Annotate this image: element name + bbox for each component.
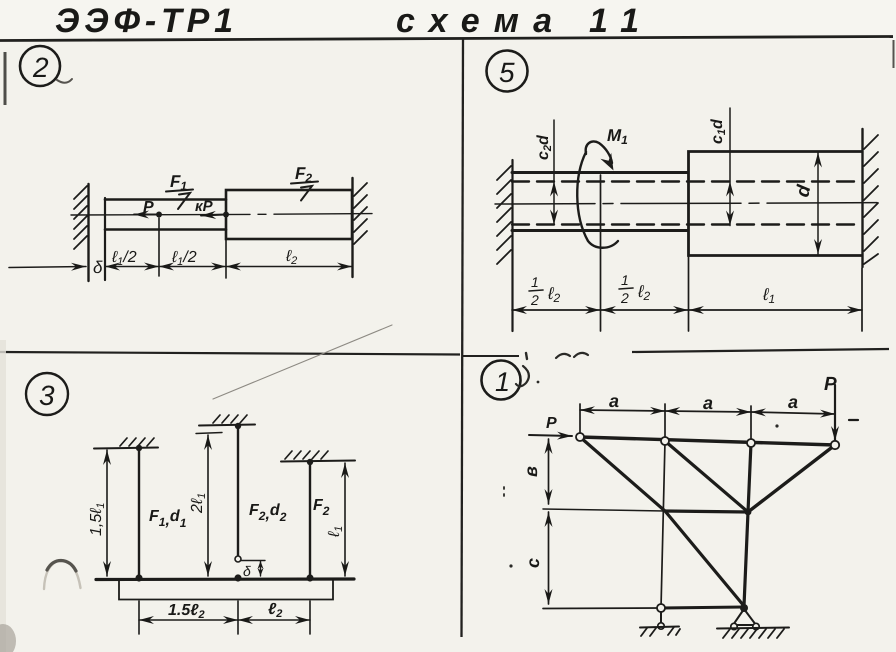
force P arrow bbox=[134, 214, 159, 216]
top chord A-E bbox=[580, 437, 835, 445]
svg-text:5: 5 bbox=[499, 57, 515, 88]
dimension l1 panel3 bbox=[344, 463, 346, 576]
node F dot bbox=[745, 509, 752, 516]
svg-text:2: 2 bbox=[620, 290, 629, 306]
dimension l1/2 second bbox=[159, 266, 226, 268]
right edge mark bbox=[893, 40, 895, 68]
stray arc 2 bbox=[574, 353, 588, 357]
PANEL2 bbox=[9, 46, 372, 281]
node E bbox=[831, 441, 839, 449]
big shaft outline bbox=[689, 152, 863, 256]
hanging bar 2 bbox=[237, 425, 239, 555]
support H hatching bbox=[641, 627, 680, 636]
bar 3 beam dot bbox=[306, 574, 313, 581]
P application dot bbox=[156, 212, 162, 218]
node C bbox=[747, 439, 755, 447]
support H ground line bbox=[640, 627, 679, 628]
vertical member B-H thin bbox=[661, 441, 665, 608]
ceiling support 2 line bbox=[199, 425, 255, 426]
ceiling 1 hatching bbox=[120, 438, 154, 446]
support G pin triangle bbox=[733, 609, 756, 625]
PANEL1 bbox=[482, 353, 859, 638]
PANEL5 bbox=[487, 51, 879, 332]
top dimension extension B bbox=[664, 404, 666, 438]
horizontal divider right bbox=[632, 349, 889, 352]
force P right arrow bbox=[834, 385, 836, 441]
right wall hatching bbox=[354, 183, 367, 244]
vertical divider bbox=[462, 39, 464, 637]
chord D-F bbox=[665, 511, 748, 512]
big bar (right step) bbox=[226, 190, 352, 239]
axis centerline bbox=[71, 214, 372, 215]
panel number 3 circle bbox=[26, 373, 68, 415]
support G ground line bbox=[717, 628, 789, 629]
shaft centerline bbox=[495, 203, 877, 204]
svg-text:c: c bbox=[523, 558, 543, 568]
node G dot bbox=[740, 604, 748, 612]
support G roller left bbox=[731, 623, 737, 629]
ceiling 3 hatching bbox=[285, 451, 328, 459]
svg-text:δ: δ bbox=[93, 258, 103, 277]
svg-text:2: 2 bbox=[32, 52, 49, 83]
stray diagonal scan line bbox=[213, 325, 392, 399]
stray dot top bbox=[775, 424, 778, 427]
title handwriting bbox=[55, 2, 639, 40]
thin bar left edge + extension line bbox=[104, 198, 106, 280]
left scanner strip bbox=[0, 340, 6, 652]
stray pen tail near circle 2 bbox=[57, 79, 72, 83]
extension below step bbox=[688, 256, 690, 331]
left wall line bbox=[87, 184, 89, 281]
force kP arrow bbox=[201, 215, 226, 216]
stray dot bbox=[537, 381, 540, 384]
dimension l1/2 first bbox=[105, 266, 159, 268]
thin shaft outline bbox=[512, 173, 688, 231]
bar 3 top pin dot bbox=[307, 459, 313, 465]
kP application dot bbox=[223, 212, 229, 218]
diagonal E-F bbox=[748, 445, 835, 512]
svg-text:кР: кР bbox=[195, 198, 214, 215]
rigid beam body bbox=[119, 580, 333, 600]
bottom-left corner smudge bbox=[0, 624, 16, 652]
punch hole shadow arc dark bbox=[47, 561, 76, 572]
horizontal divider left bbox=[0, 352, 460, 355]
diagonal B-F bbox=[665, 441, 748, 512]
right wall line bbox=[861, 129, 863, 267]
c1d dimension line bbox=[729, 108, 731, 181]
F2 slash arrow bbox=[301, 186, 312, 201]
c2d arrows bbox=[553, 182, 555, 225]
bottom horizontal line bbox=[543, 607, 661, 610]
PANEL3 bbox=[26, 325, 392, 634]
extension below bar3 bbox=[309, 601, 311, 634]
svg-text:a: a bbox=[703, 393, 713, 413]
dimension l2 bbox=[226, 266, 352, 268]
svg-text:1: 1 bbox=[621, 272, 629, 288]
extension line under P dot bbox=[158, 218, 160, 276]
delta gap dimension bbox=[260, 561, 262, 576]
extension below bar1 bbox=[138, 601, 140, 634]
dimension 1.5l2 bbox=[139, 619, 238, 621]
bottom chord H-G bbox=[661, 607, 744, 608]
dimension 2l1 extension tick bbox=[196, 433, 222, 434]
ceiling support 3 line bbox=[281, 461, 355, 462]
svg-text:ℓ1/2: ℓ1/2 bbox=[171, 249, 197, 268]
diagonal A-D-G bbox=[580, 437, 744, 606]
dimension a segment 2 bbox=[665, 411, 751, 412]
dimension 2l1 bbox=[207, 435, 209, 576]
torque arrowhead bbox=[600, 153, 613, 171]
svg-text:Р: Р bbox=[546, 415, 557, 432]
right wall line bbox=[351, 178, 353, 277]
support H lower pin circle bbox=[658, 623, 664, 629]
torque M1 ellipse arrow bbox=[577, 141, 618, 247]
hanging bar 1 bbox=[138, 447, 140, 578]
svg-text:P: P bbox=[143, 199, 154, 216]
force P left arrow bbox=[529, 435, 572, 436]
node H bbox=[657, 604, 665, 612]
small dash right bbox=[849, 419, 858, 421]
stray colon bbox=[503, 487, 505, 496]
svg-text:1: 1 bbox=[495, 367, 510, 397]
bore dashed line bottom bbox=[512, 223, 862, 225]
node B bbox=[661, 437, 669, 445]
delta gap leader line bbox=[241, 560, 265, 562]
ceiling support 1 line bbox=[94, 448, 158, 449]
top dimension extension C bbox=[750, 406, 752, 440]
title rule bbox=[0, 37, 893, 41]
support G hatching bbox=[723, 629, 784, 638]
dimension a segment 3 bbox=[751, 412, 835, 414]
left wall hatching bbox=[497, 166, 511, 264]
panel number 1 circle bbox=[482, 361, 521, 400]
c2d dimension line bbox=[553, 120, 555, 181]
F2 underline bbox=[291, 182, 318, 184]
left wall line bbox=[511, 160, 513, 331]
bar 2 top pin dot bbox=[235, 423, 241, 429]
d dimension arrows bbox=[817, 153, 819, 255]
svg-text:δ: δ bbox=[243, 563, 251, 579]
right wall hatching bbox=[864, 135, 878, 264]
support G roller right bbox=[753, 623, 759, 629]
F1 underline bbox=[166, 190, 193, 192]
punch hole shadow arc light bbox=[44, 560, 81, 589]
left dimension line b and c bbox=[548, 439, 550, 504]
left wall hatching bbox=[74, 186, 87, 249]
svg-text:a: a bbox=[609, 391, 619, 411]
rigid beam top line bbox=[96, 577, 354, 581]
stray dot low bbox=[509, 564, 512, 567]
delta dimension arrow at wall bbox=[9, 267, 86, 268]
thin bar (left step) bbox=[105, 200, 226, 230]
extension below right wall bbox=[861, 268, 863, 331]
label half l2 second bbox=[619, 272, 651, 306]
dimension a segment 1 bbox=[580, 410, 665, 411]
svg-text:в: в bbox=[521, 466, 541, 477]
svg-text:2: 2 bbox=[530, 292, 539, 308]
dimension 1.5l1 bbox=[106, 450, 108, 576]
stray arc 1 bbox=[556, 354, 570, 358]
extension line under step bbox=[225, 239, 227, 278]
support H link bbox=[660, 612, 662, 623]
bar 1 bottom dot bbox=[135, 574, 142, 581]
hanging bar 3 bbox=[309, 461, 311, 578]
panel number 2 circle bbox=[20, 46, 60, 86]
stray hook mark bbox=[516, 366, 529, 386]
label half l2 first bbox=[529, 274, 561, 308]
c1d arrows bbox=[729, 182, 731, 226]
svg-text:P: P bbox=[824, 374, 837, 395]
bottom dimension line bbox=[512, 309, 862, 311]
bar 2 beam dot bbox=[234, 574, 241, 581]
extension below bar2 bbox=[237, 601, 239, 634]
stray apostrophe bbox=[526, 353, 527, 359]
panel number 5 circle bbox=[487, 51, 528, 92]
bar 1 top pin dot bbox=[136, 445, 142, 451]
dimension l2 panel3 bbox=[238, 619, 310, 621]
svg-text:3: 3 bbox=[39, 380, 55, 411]
mid-span section line bbox=[600, 175, 602, 331]
vertical C-F-G bbox=[744, 443, 751, 606]
mid horizontal line bbox=[543, 509, 665, 511]
left edge streak bbox=[4, 52, 7, 105]
bar 2 gap circle bbox=[235, 556, 241, 562]
bore dashed line top bbox=[512, 180, 862, 182]
svg-text:a: a bbox=[788, 392, 798, 412]
node A bbox=[576, 433, 584, 441]
svg-text:ℓ1/2: ℓ1/2 bbox=[111, 249, 137, 268]
horizontal divider stub bbox=[463, 355, 519, 357]
top dimension extension A bbox=[579, 404, 581, 434]
F1 slash arrow bbox=[178, 193, 190, 209]
ceiling 2 hatching bbox=[213, 415, 247, 423]
svg-text:1: 1 bbox=[531, 274, 539, 290]
